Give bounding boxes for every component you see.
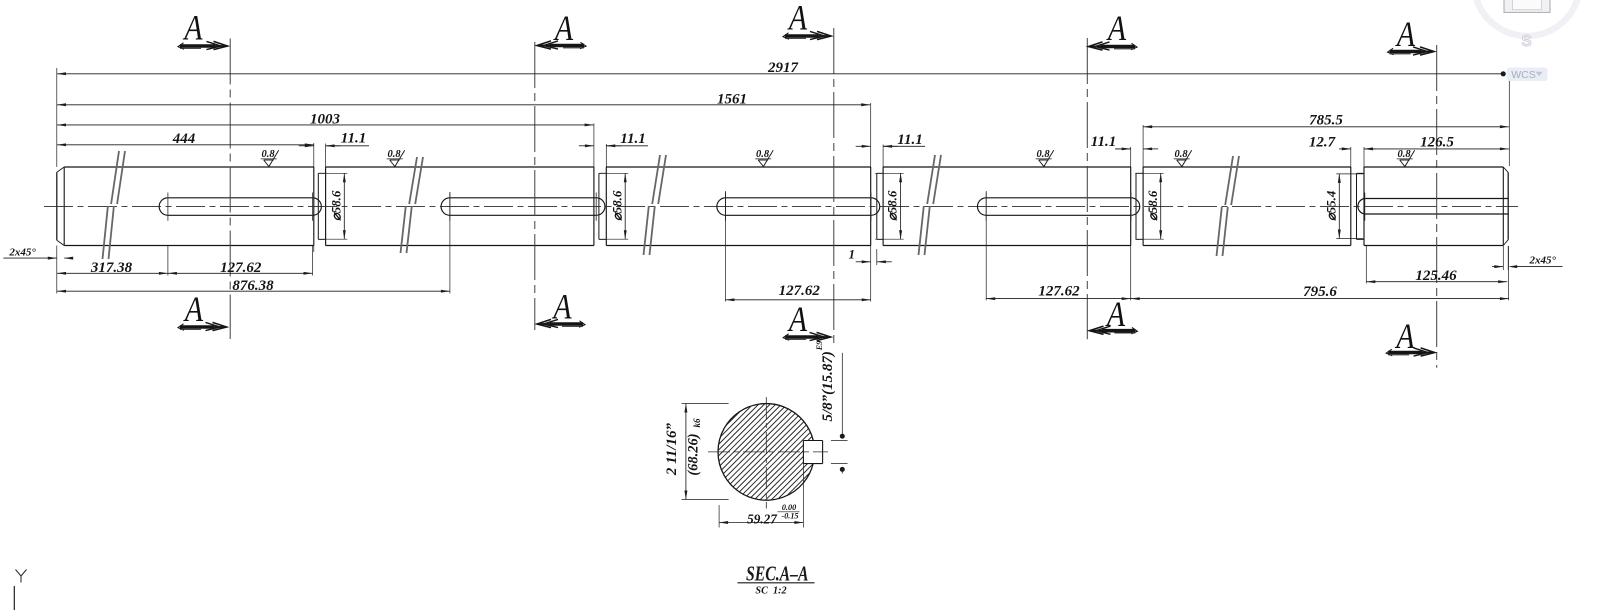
svg-text:126.5: 126.5 [1420,135,1454,151]
svg-text:127.62: 127.62 [220,260,262,276]
svg-text:2917: 2917 [767,60,799,76]
svg-text:A: A [787,0,808,38]
svg-text:SC 1:2: SC 1:2 [755,586,786,597]
svg-text:⌀58.6: ⌀58.6 [329,190,343,221]
svg-text:(68.26): (68.26) [686,433,702,475]
svg-text:317.38: 317.38 [90,260,133,276]
svg-text:5/8”(15.87): 5/8”(15.87) [820,351,836,421]
svg-text:⌀58.6: ⌀58.6 [1146,190,1160,221]
svg-text:A: A [1395,16,1416,55]
svg-text:125.46: 125.46 [1415,268,1457,284]
svg-text:1561: 1561 [717,91,747,107]
svg-text:11.1: 11.1 [1091,134,1116,150]
svg-text:2x45°: 2x45° [8,246,36,258]
svg-text:444: 444 [172,131,196,147]
svg-text:12.7: 12.7 [1309,135,1336,151]
svg-text:E9: E9 [815,341,824,352]
svg-text:⌀55.4: ⌀55.4 [1324,190,1338,221]
svg-text:SEC.A–A: SEC.A–A [746,562,809,586]
svg-text:785.5: 785.5 [1309,113,1343,129]
svg-text:1003: 1003 [310,112,341,128]
svg-text:11.1: 11.1 [341,131,366,147]
svg-text:11.1: 11.1 [897,132,922,148]
svg-text:A: A [553,10,574,49]
svg-text:S: S [1521,33,1531,50]
svg-text:2 11/16”: 2 11/16” [664,423,680,477]
svg-text:⌀58.6: ⌀58.6 [886,190,900,221]
svg-text:795.6: 795.6 [1303,284,1337,300]
svg-text:A: A [787,301,808,340]
svg-text:2x45°: 2x45° [1528,255,1556,267]
svg-text:WCS: WCS [1511,69,1536,81]
svg-text:A: A [1106,10,1127,49]
svg-text:-0.15: -0.15 [781,512,798,521]
svg-text:876.38: 876.38 [232,278,274,294]
svg-text:A: A [552,288,573,327]
svg-text:1: 1 [849,247,856,262]
svg-text:k6: k6 [692,418,702,428]
svg-text:⌀58.6: ⌀58.6 [610,190,624,221]
svg-text:11.1: 11.1 [620,131,645,147]
svg-text:59.27: 59.27 [747,512,778,527]
svg-text:127.62: 127.62 [779,283,821,299]
svg-text:A: A [183,9,204,48]
svg-text:A: A [183,291,204,330]
svg-text:A: A [1105,296,1126,335]
svg-text:127.62: 127.62 [1038,284,1080,300]
